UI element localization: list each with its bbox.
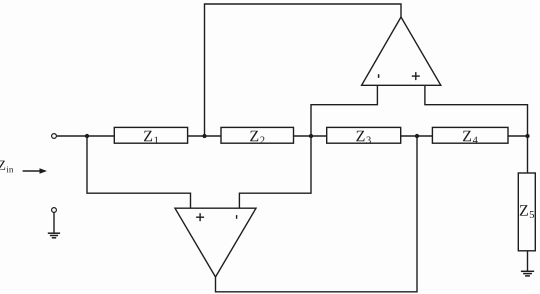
wire: lower terminal to ground	[53, 213, 55, 233]
node B (Z1-Z2 junction)	[202, 134, 206, 138]
wire: Z4 to node E	[508, 135, 528, 137]
U1 non-inverting input mark (+)	[412, 72, 420, 80]
wire: U2 output to node D	[216, 136, 418, 292]
wire: node A to U2 non-inverting input	[87, 136, 191, 208]
wire: Z5 to ground	[527, 251, 529, 271]
arrow (Zin direction)	[23, 168, 47, 174]
wire: U1 output feedback (node B up, across top, to U1 apex)	[205, 4, 402, 136]
wire: Z1 to Z2	[188, 135, 221, 137]
wire: input to Z1	[57, 135, 115, 137]
wire: U1 non-inverting input to node E	[425, 85, 528, 136]
input terminal (open circle)	[52, 134, 57, 139]
ground (right, below Z5)	[521, 271, 534, 276]
U2 inverting input mark (-)	[236, 215, 238, 219]
lower input terminal (open circle)	[52, 208, 57, 213]
node A (input node)	[85, 134, 89, 138]
wire: Z3 to Z4	[401, 135, 433, 137]
wire: node C to U2 inverting input	[239, 136, 311, 208]
impedance Z1	[114, 127, 187, 143]
op-amp U1 (top, output at apex)	[362, 17, 441, 85]
U2 non-inverting input mark (+)	[196, 213, 204, 221]
wire: Z2 to Z3	[294, 135, 327, 137]
wire: U1 inverting input to node C	[311, 85, 377, 136]
impedance Z3	[327, 127, 401, 143]
U1 inverting input mark (-)	[378, 74, 380, 78]
op-amp U2 (bottom, output at apex)	[175, 208, 256, 277]
label Zin	[0, 161, 13, 173]
node E (Z4-Z5 junction)	[525, 134, 529, 138]
impedance Z2	[221, 127, 294, 143]
ground (left, below lower terminal)	[48, 233, 60, 238]
node C (Z2-Z3 junction)	[309, 134, 313, 138]
impedance Z4	[432, 127, 508, 143]
node D (Z3-Z4 junction)	[415, 134, 419, 138]
wire: node E to Z5	[527, 136, 529, 173]
impedance Z5	[518, 173, 535, 251]
